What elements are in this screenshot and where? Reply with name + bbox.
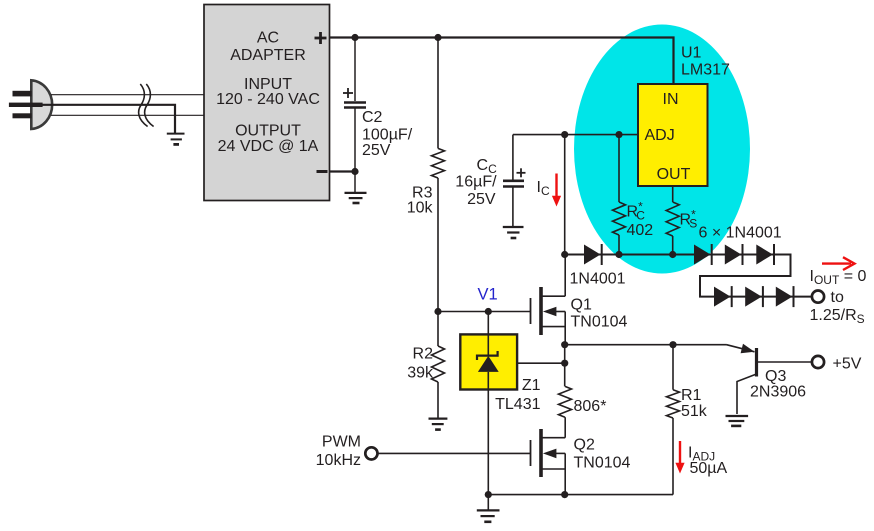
svg-text:ADJ: ADJ (645, 127, 675, 144)
C2 plus sign (343, 88, 353, 98)
wire: plug line to adapter input (bottom) (51, 114, 205, 116)
svg-text:1.25/RS: 1.25/RS (810, 307, 865, 326)
terminal: output (812, 291, 824, 303)
node: C2 top junction (351, 34, 358, 41)
svg-text:24 VDC @ 1A: 24 VDC @ 1A (218, 138, 319, 155)
svg-text:806*: 806* (574, 398, 607, 415)
resistor R1 (667, 345, 680, 495)
terminal: +5V (812, 356, 824, 368)
svg-text:50µA: 50µA (690, 460, 728, 477)
svg-text:Z1: Z1 (522, 377, 541, 394)
diode D6 (745, 286, 763, 307)
wire: plug line to adapter input (top) (51, 94, 205, 96)
wire: V1 node row (438, 311, 531, 313)
svg-text:PWM: PWM (322, 433, 361, 450)
svg-text:+5V: +5V (833, 356, 862, 373)
node: C2 / minus rail junction (351, 168, 358, 175)
node: R3 top junction (434, 34, 441, 41)
svg-text:ADAPTER: ADAPTER (230, 47, 306, 64)
diode D2 (694, 244, 712, 265)
AC plug P1 (9, 80, 52, 129)
transistor Q1 TN0104 (531, 287, 566, 335)
svg-text:R*S: R*S (680, 208, 698, 231)
node: Q1 source junction (561, 341, 568, 348)
IADJ red arrow (675, 441, 684, 474)
resistor 806 (559, 386, 572, 417)
transistor Q3 2N3906 (727, 345, 813, 414)
capacitor CC (503, 135, 524, 227)
svg-text:100µF/: 100µF/ (362, 126, 413, 143)
wire: Q1 source down (564, 312, 566, 345)
node: Z1 anode / rail junction (485, 491, 492, 498)
node: TL431 ref junction (561, 360, 568, 367)
svg-text:2N3906: 2N3906 (750, 383, 806, 400)
node V1 (485, 308, 492, 315)
wire break symbol (139, 84, 154, 127)
wire: TL431 ref to node (500, 362, 565, 364)
ground: below R2 (429, 419, 448, 430)
diode D5 (714, 286, 732, 307)
svg-text:TL431: TL431 (495, 396, 540, 413)
svg-text:AC: AC (257, 30, 279, 47)
ground: below CC (503, 227, 524, 238)
wire: diode row top (565, 255, 812, 297)
wire: plug earth line (thick) (42, 105, 175, 134)
svg-text:16µF/: 16µF/ (455, 173, 497, 190)
wire: 806 column (564, 345, 566, 387)
svg-text:TN0104: TN0104 (571, 313, 628, 330)
resistor R3 (432, 38, 445, 312)
svg-text:10k: 10k (407, 200, 434, 217)
svg-text:25V: 25V (467, 191, 496, 208)
adapter plus terminal (315, 32, 327, 44)
wire: ADJ pin net (513, 134, 638, 136)
ground: earth wire (167, 134, 185, 145)
svg-text:OUT: OUT (657, 166, 691, 183)
node: ADJ / drain column junction (561, 131, 568, 138)
transistor Q2 TN0104 (531, 429, 566, 477)
AC adapter block (204, 5, 330, 201)
svg-text:Q2: Q2 (574, 436, 595, 453)
wire: bottom ground rail (488, 494, 673, 496)
shunt regulator Z1 TL431 (460, 312, 517, 495)
node: R1 top junction (669, 341, 676, 348)
svg-text:R1: R1 (681, 387, 702, 404)
adapter minus terminal (317, 170, 328, 173)
resistor R2 (432, 312, 445, 419)
svg-text:R2: R2 (413, 345, 434, 362)
wire: Q1 drain up to diode row (564, 255, 566, 297)
resistor RC 402 (613, 135, 626, 255)
ground: below C2 (345, 172, 367, 204)
svg-text:6 × 1N4001: 6 × 1N4001 (699, 225, 782, 242)
node: ADJ / RC junction (615, 131, 622, 138)
svg-text:LM317: LM317 (681, 61, 730, 78)
svg-text:C2: C2 (362, 109, 383, 126)
svg-text:Q1: Q1 (571, 296, 592, 313)
svg-text:402: 402 (627, 222, 654, 239)
wire: ADJ column down to diode row (564, 135, 566, 255)
capacitor C2 (344, 38, 366, 172)
svg-text:IN: IN (663, 91, 679, 108)
Q1 body arrow (543, 307, 557, 317)
svg-text:Q3: Q3 (765, 368, 786, 385)
highlight ellipse around LM317 (574, 25, 750, 274)
IOUT red arrow (822, 257, 855, 270)
node: diode row left junction (561, 251, 568, 258)
diode D3 (725, 244, 743, 265)
ground: Q3 collector (726, 416, 749, 426)
svg-text:U1: U1 (681, 45, 702, 62)
wire: +24V top rail (330, 38, 674, 86)
node: R3/R2 junction (434, 308, 441, 315)
ground: bottom rail (477, 495, 500, 522)
diode D7 (776, 286, 794, 307)
svg-text:TN0104: TN0104 (574, 454, 631, 471)
wire: source node row to Q3 (565, 344, 727, 346)
node: RS bottom junction (669, 251, 676, 258)
svg-text:10kHz: 10kHz (316, 452, 361, 469)
diode D1 1N4001 (584, 244, 602, 265)
svg-text:R*C: R*C (627, 200, 646, 223)
Q3 emitter arrow (741, 344, 755, 354)
svg-text:51k: 51k (681, 403, 708, 420)
IC red arrow (552, 174, 561, 207)
svg-text:120 - 240 VAC: 120 - 240 VAC (216, 91, 320, 108)
svg-text:25V: 25V (362, 142, 391, 159)
CC plus sign (517, 168, 526, 177)
svg-text:39k: 39k (407, 364, 434, 381)
svg-text:V1: V1 (478, 285, 498, 303)
svg-text:OUTPUT: OUTPUT (235, 123, 301, 140)
wire: Q2 drain up to 806 (564, 417, 566, 438)
diode D4 (756, 244, 774, 265)
svg-text:to: to (831, 289, 844, 306)
wire: minus rail from adapter (330, 170, 356, 172)
resistor RS (666, 186, 679, 255)
terminal: PWM input (365, 447, 377, 459)
svg-text:1N4001: 1N4001 (570, 270, 626, 287)
node: RC bottom junction (615, 251, 622, 258)
wire: Q2 source down to rail (564, 453, 566, 494)
node: Q2 source / rail junction (561, 491, 568, 498)
wire: PWM to Q2 gate (378, 452, 531, 454)
regulator U1 LM317 (638, 38, 708, 187)
Q2 body arrow (543, 449, 557, 459)
